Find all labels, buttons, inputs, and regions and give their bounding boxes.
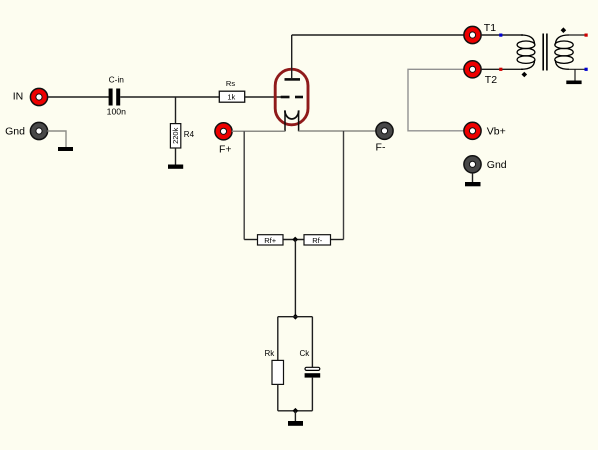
wire bbox=[472, 173, 474, 182]
wire bbox=[294, 411, 296, 421]
ground bbox=[168, 165, 183, 169]
svg-text:1k: 1k bbox=[227, 93, 235, 102]
svg-text:R4: R4 bbox=[184, 130, 195, 139]
resistor Rf+ bbox=[258, 235, 284, 245]
svg-text:Gnd: Gnd bbox=[487, 159, 507, 171]
wire bbox=[311, 378, 313, 411]
wire bbox=[311, 317, 313, 368]
wire bbox=[278, 316, 313, 318]
svg-text:T1: T1 bbox=[484, 22, 496, 34]
wire bbox=[294, 240, 296, 317]
svg-text:100n: 100n bbox=[107, 107, 126, 117]
capacitor Ck bbox=[300, 349, 321, 378]
terminal IN bbox=[13, 88, 48, 105]
svg-text:T2: T2 bbox=[485, 74, 497, 86]
svg-text:C-in: C-in bbox=[109, 75, 125, 85]
wire bbox=[120, 96, 219, 98]
svg-text:IN: IN bbox=[13, 91, 24, 103]
resistor Rk bbox=[265, 349, 284, 384]
node phase diamond bbox=[522, 72, 528, 78]
wire bbox=[408, 69, 464, 131]
resistor R4 bbox=[170, 97, 194, 165]
wire bbox=[277, 384, 279, 410]
wire bbox=[277, 317, 279, 361]
wire bbox=[278, 410, 313, 412]
wire bbox=[331, 239, 344, 241]
svg-text:Rf-: Rf- bbox=[312, 236, 323, 245]
core bbox=[542, 34, 544, 71]
node junction bbox=[293, 314, 299, 320]
svg-text:Rf+: Rf+ bbox=[264, 236, 277, 245]
resistor Rf- bbox=[304, 235, 331, 245]
terminal Gnd bbox=[5, 122, 47, 139]
svg-text:Vb+: Vb+ bbox=[487, 126, 506, 138]
terminal F- bbox=[376, 122, 394, 153]
terminal T2 bbox=[464, 61, 497, 86]
svg-text:F-: F- bbox=[376, 141, 386, 153]
wire bbox=[299, 130, 377, 132]
node junction bbox=[292, 237, 298, 243]
terminal Gnd bbox=[464, 156, 507, 173]
ground bbox=[58, 147, 73, 151]
wire bbox=[567, 68, 586, 70]
wire bbox=[292, 34, 464, 36]
wire bbox=[47, 131, 66, 147]
svg-text:220k: 220k bbox=[171, 127, 180, 144]
node phase diamond bbox=[561, 27, 567, 33]
inductor primary bbox=[517, 35, 535, 69]
svg-text:F+: F+ bbox=[219, 144, 232, 156]
ground bbox=[465, 182, 481, 186]
resistor Rs bbox=[219, 79, 244, 102]
wire bbox=[283, 239, 304, 241]
wire bbox=[481, 34, 523, 36]
svg-text:Rs: Rs bbox=[226, 79, 235, 88]
svg-text:Rk: Rk bbox=[265, 349, 276, 358]
capacitor C-in bbox=[107, 75, 126, 117]
wire bbox=[48, 96, 110, 98]
ground bbox=[566, 81, 581, 85]
wire bbox=[244, 239, 257, 241]
wire bbox=[481, 68, 523, 70]
wire bbox=[343, 131, 345, 240]
terminal Vb+ bbox=[464, 122, 506, 139]
terminal T1 bbox=[464, 22, 496, 44]
wire bbox=[243, 131, 245, 239]
node red dot bbox=[585, 34, 588, 37]
inductor secondary bbox=[555, 35, 573, 69]
ground bbox=[288, 421, 303, 426]
terminal F+ bbox=[215, 123, 232, 156]
wire bbox=[244, 96, 281, 98]
triode tube V1 bbox=[275, 35, 308, 131]
node junction bbox=[293, 408, 299, 414]
transformer T1/T2 output bbox=[481, 27, 588, 84]
node blue dot bbox=[585, 68, 588, 71]
wire bbox=[567, 34, 586, 36]
node red dot bbox=[499, 68, 502, 71]
node blue dot bbox=[499, 34, 502, 37]
svg-text:Gnd: Gnd bbox=[5, 125, 25, 137]
wire bbox=[574, 69, 576, 80]
wire bbox=[232, 130, 285, 132]
svg-text:Ck: Ck bbox=[300, 349, 311, 358]
